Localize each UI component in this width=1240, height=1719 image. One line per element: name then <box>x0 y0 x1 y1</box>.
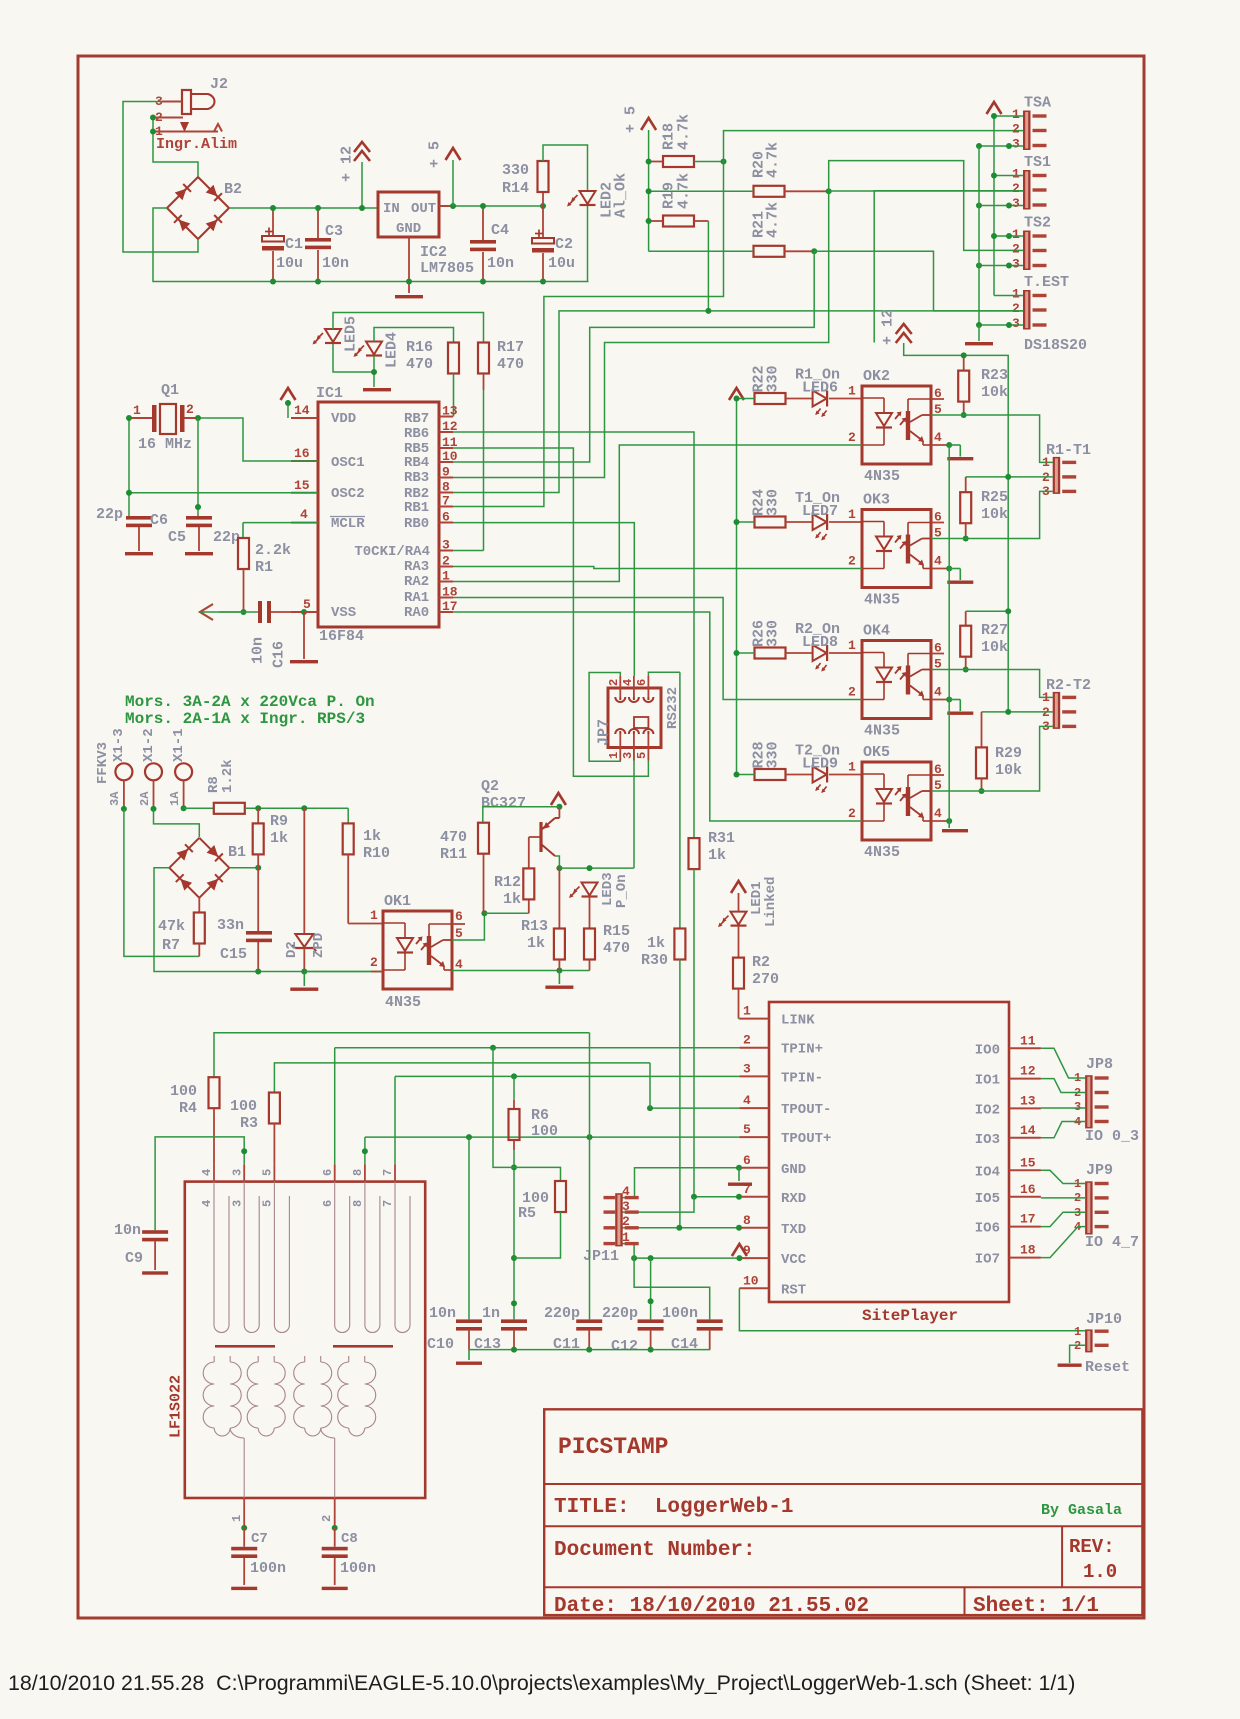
svg-text:470: 470 <box>603 940 630 957</box>
SitePlayer pin 5 TPOUT+ <box>739 1136 769 1138</box>
wire OK2 pin5 to R1-T1 pin1 <box>931 415 1053 462</box>
wire TS1 pin2 <box>829 190 1023 192</box>
svg-text:100n: 100n <box>662 1305 698 1322</box>
svg-text:4.7k: 4.7k <box>764 202 781 238</box>
OK5 pin4 to ground <box>931 820 949 822</box>
resistor R5 <box>555 1181 566 1212</box>
svg-text:33n: 33n <box>217 917 244 934</box>
ground symbol OK5 <box>942 829 968 832</box>
svg-text:1: 1 <box>848 507 856 522</box>
ground symbol OK1 rail <box>558 971 560 985</box>
svg-text:1: 1 <box>1012 227 1020 242</box>
svg-text:FFKV3: FFKV3 <box>95 742 111 784</box>
wire IO6 to JP9 pin3 <box>1041 1212 1085 1226</box>
wire capacitor ground rail <box>469 1349 710 1351</box>
resistor R1 <box>242 523 244 538</box>
svg-text:3: 3 <box>622 1199 630 1214</box>
svg-text:OUT: OUT <box>411 201 436 217</box>
svg-text:IO 0_3: IO 0_3 <box>1085 1128 1139 1145</box>
SitePlayer pin 10 RST <box>739 1287 769 1289</box>
svg-text:C11: C11 <box>553 1336 580 1353</box>
OK4 pin4 to ground <box>931 699 949 701</box>
OK5 pin6 stub <box>931 774 944 776</box>
svg-text:IC2: IC2 <box>420 244 447 261</box>
wire Q2 collector node <box>555 856 559 868</box>
wire B1 right to R9 <box>229 867 258 869</box>
wire IO0 to JP8 pin1 <box>1041 1048 1085 1078</box>
transformer LF1S022 <box>185 1182 425 1498</box>
OK4 pin6 stub <box>931 653 944 655</box>
IC1 pin 17 stub <box>439 611 453 613</box>
svg-text:R17: R17 <box>497 339 524 356</box>
capacitor C8 <box>334 1528 336 1547</box>
+12 supply arrow <box>354 142 370 152</box>
svg-text:RB0: RB0 <box>404 516 429 532</box>
svg-text:10k: 10k <box>981 639 1008 656</box>
svg-text:LM7805: LM7805 <box>420 260 474 277</box>
ground symbol OK3 <box>947 581 973 584</box>
svg-text:2A: 2A <box>138 791 152 806</box>
IC1 pin 9 stub <box>439 477 453 479</box>
SitePlayer pin 15 IO4 <box>1009 1169 1041 1171</box>
svg-text:6: 6 <box>442 510 450 525</box>
svg-text:4N35: 4N35 <box>864 468 900 485</box>
svg-text:C10: C10 <box>427 1336 454 1353</box>
svg-text:8: 8 <box>351 1169 365 1176</box>
svg-text:X1-2: X1-2 <box>141 728 157 762</box>
svg-text:3: 3 <box>1074 1100 1081 1114</box>
svg-text:1.0: 1.0 <box>1083 1561 1117 1583</box>
wire RXD row <box>694 1196 739 1198</box>
svg-text:C12: C12 <box>611 1338 638 1355</box>
svg-text:Linked: Linked <box>763 877 779 927</box>
wire R1-T1 pin2 +12 <box>966 476 1053 478</box>
wire TSA pin3 <box>979 145 1023 147</box>
wire IO3 to JP8 pin4 <box>1041 1122 1085 1138</box>
svg-text:100n: 100n <box>250 1560 286 1577</box>
IC1 pin 2 stub <box>439 566 453 568</box>
svg-text:TSA: TSA <box>1024 95 1051 112</box>
svg-text:VCC: VCC <box>781 1252 807 1268</box>
resistor R28 <box>755 769 786 780</box>
svg-text:330: 330 <box>764 489 781 516</box>
terminal X1-2 <box>145 763 162 780</box>
ground symbol IC2 <box>395 295 423 298</box>
resistor R17 <box>478 343 489 374</box>
optocoupler OK5 4N35 <box>829 774 862 776</box>
svg-text:1k: 1k <box>708 847 726 864</box>
svg-text:2: 2 <box>370 955 378 970</box>
svg-text:R2: R2 <box>752 954 770 971</box>
LED5 <box>325 329 341 342</box>
wire TPIN+ row <box>335 1047 740 1049</box>
net arrow left VSS <box>200 604 213 620</box>
wire R3 branch to TPOUT- <box>649 1063 651 1108</box>
svg-text:R14: R14 <box>502 180 529 197</box>
svg-text:LED9: LED9 <box>802 756 838 773</box>
wire B2 right +12 rail <box>229 207 378 209</box>
wire JP11 pin3 to RXD <box>621 1197 695 1212</box>
wire OK5 pin2 from RA0 <box>453 612 862 821</box>
wire C10 column <box>468 1137 470 1319</box>
svg-text:RST: RST <box>781 1282 806 1298</box>
resistor R16 <box>448 343 459 374</box>
OK1 pin6 stub <box>452 923 465 925</box>
svg-text:7: 7 <box>442 494 450 509</box>
wire JP7 pin6 to R30 column <box>648 672 680 676</box>
svg-text:1k: 1k <box>503 891 521 908</box>
wire TS1 pin1 <box>994 175 1023 177</box>
IC1 pin 13 stub <box>439 416 453 418</box>
svg-text:R10: R10 <box>363 845 390 862</box>
svg-text:1: 1 <box>1042 455 1050 470</box>
SitePlayer pin 11 IO0 <box>1009 1047 1041 1049</box>
svg-text:R25: R25 <box>981 489 1008 506</box>
svg-text:3: 3 <box>442 538 450 553</box>
ground symbol sense rail <box>303 972 305 987</box>
svg-text:TPIN-: TPIN- <box>781 1070 823 1086</box>
svg-text:10k: 10k <box>995 762 1022 779</box>
wire OK4 pin2 from RA1 <box>453 598 862 700</box>
svg-text:RA0: RA0 <box>404 605 429 621</box>
svg-text:330: 330 <box>764 741 781 768</box>
svg-text:2: 2 <box>1012 122 1020 137</box>
svg-text:1k: 1k <box>527 935 545 952</box>
svg-text:TITLE: LoggerWeb-1: TITLE: LoggerWeb-1 <box>554 1496 793 1519</box>
IC1 pin 12 stub <box>439 431 453 433</box>
svg-text:5: 5 <box>743 1122 751 1137</box>
connector JP8 <box>1085 1075 1093 1128</box>
svg-text:1: 1 <box>1012 287 1020 302</box>
optocoupler OK4 4N35 <box>829 652 862 654</box>
connector R1-T1 <box>1053 457 1061 494</box>
ground symbol SitePlayer GND <box>738 1168 740 1181</box>
svg-text:4: 4 <box>934 685 942 700</box>
transformer windings <box>214 1182 229 1333</box>
svg-text:3: 3 <box>1012 257 1020 272</box>
microcontroller IC1 16F84 <box>318 402 439 627</box>
SitePlayer pin 7 RXD <box>739 1196 769 1198</box>
wire LED5 top loop <box>333 313 484 343</box>
LED2 <box>580 191 596 204</box>
resistor R14 <box>542 192 544 206</box>
connector TS2 <box>1023 231 1031 271</box>
+5 supply arrow at IC2 <box>446 148 461 160</box>
transformer pin8 to TPOUT+ row <box>364 1137 366 1164</box>
capacitor C5 <box>186 516 212 520</box>
resistor R6 <box>513 1076 515 1100</box>
resistor R25 <box>965 477 967 492</box>
wire OSC2 <box>129 492 318 494</box>
svg-text:R1-T1: R1-T1 <box>1046 442 1091 459</box>
wire R8 output <box>245 807 348 809</box>
svg-text:22p: 22p <box>96 506 123 523</box>
svg-text:1: 1 <box>743 1004 751 1019</box>
svg-text:6: 6 <box>635 679 649 686</box>
ground symbol DS18S20 <box>965 342 993 345</box>
wire IO2 to JP8 pin3 <box>1041 1107 1085 1109</box>
wire IO4 to JP9 pin1 <box>1041 1170 1085 1183</box>
svg-text:1k: 1k <box>363 828 381 845</box>
svg-text:4.7k: 4.7k <box>764 142 781 178</box>
svg-text:RB1: RB1 <box>404 500 429 516</box>
connector JP7 RS232 <box>608 688 661 748</box>
module SitePlayer <box>769 1002 1009 1302</box>
common emitter vertical <box>948 445 950 821</box>
svg-text:2: 2 <box>442 554 450 569</box>
svg-text:B1: B1 <box>228 844 246 861</box>
capacitor C13 <box>501 1319 527 1323</box>
SitePlayer pin 18 IO7 <box>1009 1257 1041 1259</box>
capacitor C15 <box>257 868 259 931</box>
SitePlayer pin 2 TPIN+ <box>739 1047 769 1049</box>
wire TS1 pin3 <box>979 205 1023 207</box>
svg-text:+ 5: + 5 <box>622 106 639 133</box>
svg-text:1: 1 <box>848 638 856 653</box>
OK3 pin4 to ground <box>931 568 949 570</box>
wire JP7 pin5 to RB5 <box>453 448 648 776</box>
svg-text:4: 4 <box>622 1184 630 1199</box>
SitePlayer pin 16 IO5 <box>1009 1196 1041 1198</box>
svg-text:2: 2 <box>1012 301 1020 316</box>
svg-text:16F84: 16F84 <box>319 628 364 645</box>
svg-text:5: 5 <box>261 1169 275 1176</box>
svg-text:1: 1 <box>848 384 856 399</box>
svg-text:C6: C6 <box>150 512 168 529</box>
svg-text:OSC2: OSC2 <box>331 486 365 502</box>
wire C14 column to VCC <box>634 1258 710 1319</box>
svg-text:2.2k: 2.2k <box>255 542 291 559</box>
svg-text:R9: R9 <box>270 813 288 830</box>
transformer pin6 to TPIN+ <box>334 1048 336 1165</box>
svg-text:JP11: JP11 <box>583 1248 619 1265</box>
optocoupler OK2 4N35 <box>829 398 862 400</box>
svg-text:22p: 22p <box>213 529 240 546</box>
capacitor C12 <box>638 1319 664 1323</box>
svg-text:3A: 3A <box>108 791 122 806</box>
wire OK5 pin5 to R2-T2 pin3 <box>931 726 1053 791</box>
svg-text:16: 16 <box>1020 1182 1036 1197</box>
transformer pin3 to C9 <box>155 1137 244 1230</box>
svg-text:IO 4_7: IO 4_7 <box>1085 1234 1139 1251</box>
svg-text:RB6: RB6 <box>404 426 429 442</box>
svg-text:OK1: OK1 <box>384 893 411 910</box>
svg-text:6: 6 <box>321 1200 335 1207</box>
svg-text:IO0: IO0 <box>975 1042 1000 1058</box>
SitePlayer pin 9 VCC <box>739 1257 769 1259</box>
wire JP7 pin4 from RB0 <box>453 523 634 676</box>
svg-text:TS1: TS1 <box>1024 154 1051 171</box>
svg-text:2: 2 <box>1012 242 1020 257</box>
capacitor C11 <box>576 1319 602 1323</box>
svg-text:2: 2 <box>607 679 621 686</box>
+5 arrow Q2 <box>551 793 566 805</box>
svg-text:3: 3 <box>621 752 635 759</box>
svg-text:100: 100 <box>230 1098 257 1115</box>
svg-text:3: 3 <box>1012 196 1020 211</box>
svg-text:T.EST: T.EST <box>1024 274 1069 291</box>
connector JP9 <box>1085 1181 1093 1234</box>
wire X1-3 to R7 <box>124 809 199 957</box>
svg-text:2: 2 <box>186 402 194 417</box>
svg-text:LINK: LINK <box>781 1013 815 1029</box>
svg-text:4: 4 <box>300 507 308 522</box>
wire Q1 pin1 down <box>128 418 130 516</box>
transformer secondary coils <box>203 1362 214 1428</box>
wire R4 branch to TPOUT+ C11 column <box>589 1033 591 1320</box>
IC1 pin 16 stub <box>291 460 318 462</box>
+5 supply arrow R18 column <box>641 118 656 130</box>
wire J2 pins 1-2 to bridge <box>153 118 198 178</box>
svg-text:15: 15 <box>1020 1155 1036 1170</box>
svg-text:1: 1 <box>1012 107 1020 122</box>
resistor R8 <box>184 807 214 809</box>
svg-text:4N35: 4N35 <box>864 592 900 609</box>
wire TPOUT- row <box>650 1107 739 1109</box>
svg-text:330: 330 <box>764 365 781 392</box>
resistor R12 <box>528 899 530 913</box>
svg-text:IO7: IO7 <box>975 1252 1000 1268</box>
connector TSA <box>1023 111 1031 151</box>
IC1 pin 3 stub <box>439 550 453 552</box>
terminal X1-1 <box>175 763 192 780</box>
svg-text:5: 5 <box>261 1200 275 1207</box>
svg-text:R6: R6 <box>531 1107 549 1124</box>
svg-text:C7: C7 <box>251 1531 268 1547</box>
wire IO7 to JP9 pin4 <box>1041 1227 1085 1258</box>
wire J2 pin3 loop <box>123 102 198 253</box>
wire X1-2 to B1 top <box>154 809 200 837</box>
svg-text:B2: B2 <box>224 181 242 198</box>
svg-text:1k: 1k <box>647 935 665 952</box>
wire R19 to bus <box>707 221 709 311</box>
wire OK3 pin2 from RA3 <box>453 567 862 569</box>
ground symbol caps rail <box>468 1350 470 1360</box>
svg-text:VDD: VDD <box>331 411 356 427</box>
svg-text:TS2: TS2 <box>1024 215 1051 232</box>
VSS net with C16 <box>219 611 244 613</box>
wire TS2 pin1 <box>994 235 1023 237</box>
svg-text:R30: R30 <box>641 952 668 969</box>
svg-text:C9: C9 <box>125 1250 143 1267</box>
SitePlayer pin 13 IO2 <box>1009 1107 1041 1109</box>
transformer core bars <box>215 1345 275 1348</box>
svg-text:C1: C1 <box>285 236 303 253</box>
svg-text:47k: 47k <box>158 918 185 935</box>
wire IO1 to JP8 pin2 <box>1041 1079 1085 1093</box>
svg-text:Al_Ok: Al_Ok <box>612 173 629 218</box>
connector R2-T2 <box>1053 692 1061 729</box>
wire TS2 pin3 <box>979 265 1023 267</box>
svg-text:RXD: RXD <box>781 1191 806 1207</box>
IC1 pin 8 stub <box>439 492 453 494</box>
svg-text:C3: C3 <box>325 223 343 240</box>
svg-text:LED5: LED5 <box>342 316 359 352</box>
svg-text:Document Number:: Document Number: <box>554 1539 756 1562</box>
ground symbol C7 <box>231 1587 257 1590</box>
svg-text:PICSTAMP: PICSTAMP <box>558 1434 668 1460</box>
svg-text:16: 16 <box>294 446 310 461</box>
wire RST to JP10 <box>739 1288 1085 1331</box>
connector JP11 <box>615 1193 623 1246</box>
svg-text:10u: 10u <box>548 255 575 272</box>
svg-text:1.2k: 1.2k <box>220 759 236 793</box>
svg-text:2: 2 <box>320 1515 334 1522</box>
svg-text:1: 1 <box>1074 1325 1081 1339</box>
resistor R18 <box>663 156 694 167</box>
svg-text:+ 12: + 12 <box>338 146 355 182</box>
svg-text:14: 14 <box>294 403 310 418</box>
svg-text:7: 7 <box>381 1200 395 1207</box>
svg-text:IO2: IO2 <box>975 1102 1000 1118</box>
svg-text:14: 14 <box>1020 1123 1036 1138</box>
svg-text:2: 2 <box>622 1214 630 1229</box>
drawing frame border <box>78 56 1144 1618</box>
svg-text:2: 2 <box>848 430 856 445</box>
svg-text:RA3: RA3 <box>404 559 429 575</box>
+12 supply arrow optos <box>896 324 912 334</box>
LED LED7 <box>786 521 813 523</box>
wire T.EST bus RB2 <box>453 311 1023 493</box>
OK2 pin6 stub <box>931 398 944 400</box>
wire R20 to TS2 pin2 <box>829 161 1023 251</box>
svg-text:270: 270 <box>752 971 779 988</box>
resistor R31 <box>689 838 700 869</box>
wire TS1 pin2 down to bus <box>874 191 1023 343</box>
svg-text:RA1: RA1 <box>404 590 429 606</box>
svg-text:15: 15 <box>294 478 310 493</box>
IC1 pin 5 VSS stub <box>291 611 318 613</box>
capacitor C2 <box>542 206 544 238</box>
capacitor C10 <box>456 1319 482 1323</box>
svg-text:RB4: RB4 <box>404 455 429 471</box>
svg-text:13: 13 <box>1020 1093 1036 1108</box>
resistor R15 <box>584 929 595 960</box>
OK1 pin2 gnd rail <box>371 971 383 973</box>
svg-text:1: 1 <box>622 1230 630 1245</box>
LED LED8 <box>786 652 813 654</box>
svg-text:IO1: IO1 <box>975 1073 1000 1089</box>
svg-text:DS18S20: DS18S20 <box>1024 337 1087 354</box>
svg-text:VSS: VSS <box>331 605 356 621</box>
svg-text:3: 3 <box>1012 316 1020 331</box>
wire RB6 to R31 column <box>453 432 694 838</box>
ground symbol OK2 <box>947 457 973 460</box>
svg-text:2: 2 <box>155 110 163 125</box>
transistor Q2 BC327 <box>539 822 542 852</box>
svg-text:RA2: RA2 <box>404 574 429 590</box>
svg-text:R5: R5 <box>518 1205 536 1222</box>
svg-text:6: 6 <box>743 1153 751 1168</box>
svg-text:470: 470 <box>440 829 467 846</box>
svg-text:18/10/2010 21.55.28 C:\Progra: 18/10/2010 21.55.28 C:\Programmi\EAGLE-5… <box>8 1671 1075 1695</box>
svg-text:1k: 1k <box>270 830 288 847</box>
svg-text:1A: 1A <box>168 791 182 806</box>
svg-text:10u: 10u <box>276 255 303 272</box>
wire C12 column to VCC <box>650 1258 652 1319</box>
wire OK1 pin4 rail <box>452 970 590 972</box>
svg-text:GND: GND <box>396 221 421 237</box>
wire B2 left to ground rail <box>153 208 589 282</box>
wire JP10 pin2 to ground <box>1070 1345 1086 1363</box>
svg-text:10n: 10n <box>487 255 514 272</box>
svg-text:4: 4 <box>200 1200 214 1207</box>
wire collector node to JP7 pin3 <box>633 748 635 869</box>
svg-text:3: 3 <box>230 1169 244 1176</box>
svg-text:C2: C2 <box>555 236 573 253</box>
svg-text:4N35: 4N35 <box>864 723 900 740</box>
resistor R2 <box>733 958 744 989</box>
